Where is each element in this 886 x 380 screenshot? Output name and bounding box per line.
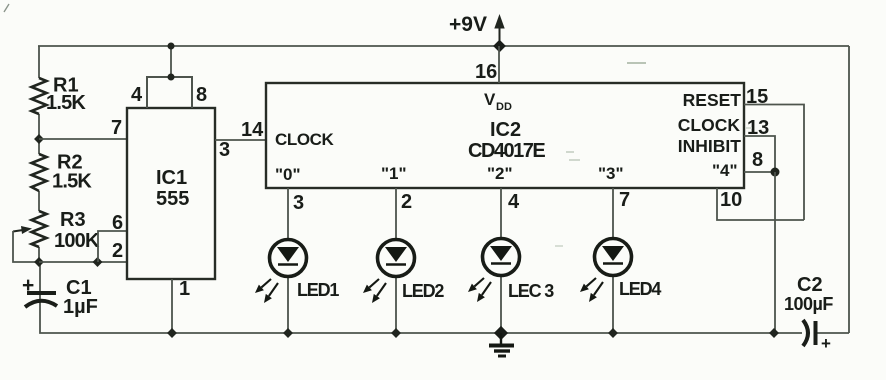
svg-text:+: + xyxy=(821,334,831,353)
svg-text:7: 7 xyxy=(111,117,122,139)
node pin8/13 junction xyxy=(771,168,780,177)
node bracket junction xyxy=(168,74,175,81)
wire pins 4-8 bracket xyxy=(147,77,192,108)
svg-text:CLOCK: CLOCK xyxy=(678,115,741,135)
resistor R2 xyxy=(32,152,93,193)
svg-text:2: 2 xyxy=(112,240,123,262)
svg-text:1.5K: 1.5K xyxy=(46,92,86,114)
wire pin 13 xyxy=(744,136,775,172)
svg-text:"3": "3" xyxy=(598,164,624,183)
svg-text:8: 8 xyxy=(196,84,207,106)
svg-text:V: V xyxy=(484,90,496,109)
ground xyxy=(489,326,514,356)
LED4 xyxy=(580,188,661,338)
svg-text:4: 4 xyxy=(131,84,143,106)
wire pin3 to pin14 xyxy=(215,139,266,141)
node R3/C1/pin2 junction xyxy=(34,257,44,267)
op IC1 555 box xyxy=(127,108,215,279)
wire pin 15 reset loop xyxy=(744,105,804,221)
svg-text:IC1: IC1 xyxy=(156,167,187,189)
svg-text:555: 555 xyxy=(156,188,189,210)
capacitor C2 xyxy=(784,274,833,353)
svg-text:2: 2 xyxy=(401,191,412,213)
svg-text:"1": "1" xyxy=(381,164,407,183)
wire pin 2 xyxy=(39,261,127,263)
svg-text:3: 3 xyxy=(219,139,230,161)
node pin2 junction xyxy=(93,257,103,267)
svg-text:+9V: +9V xyxy=(449,13,487,36)
supply +9V xyxy=(449,13,505,44)
wire pin1 xyxy=(171,279,173,333)
svg-text:100K: 100K xyxy=(54,230,100,252)
svg-text:LED2: LED2 xyxy=(402,281,444,301)
svg-text:3: 3 xyxy=(293,192,304,214)
svg-text:CD4017E: CD4017E xyxy=(468,140,545,162)
svg-text:"2": "2" xyxy=(487,164,513,183)
svg-text:100µF: 100µF xyxy=(784,294,833,314)
svg-text:C2: C2 xyxy=(797,274,823,296)
svg-text:1: 1 xyxy=(179,278,190,300)
svg-text:6: 6 xyxy=(112,212,123,234)
node bottom rail/C2 junction xyxy=(769,328,779,338)
node pin1/ground rail xyxy=(167,328,177,338)
node +9V diamond junction xyxy=(493,40,506,53)
svg-text:LEC 3: LEC 3 xyxy=(508,281,554,301)
LED1 xyxy=(255,188,339,338)
svg-text:INHIBIT: INHIBIT xyxy=(678,136,742,156)
svg-text:DD: DD xyxy=(496,101,512,113)
node pin7 junction xyxy=(34,134,44,144)
scan noise xyxy=(627,62,646,64)
svg-text:1.5K: 1.5K xyxy=(52,171,92,193)
svg-text:"0": "0" xyxy=(275,165,301,184)
svg-text:LED1: LED1 xyxy=(297,280,339,300)
wire pin 10 xyxy=(717,188,804,220)
LED3 xyxy=(468,188,554,333)
LED2 xyxy=(363,188,444,338)
svg-text:10: 10 xyxy=(720,189,742,211)
svg-text:14: 14 xyxy=(241,119,264,141)
svg-text:15: 15 xyxy=(746,86,768,108)
wire left rail xyxy=(38,46,40,263)
capacitor C1 xyxy=(22,274,98,318)
wire pin 6 xyxy=(98,231,127,262)
svg-text:4: 4 xyxy=(508,191,520,213)
svg-text:R3: R3 xyxy=(60,209,86,231)
svg-text:7: 7 xyxy=(619,189,630,211)
wire to bottom rail xyxy=(774,172,776,333)
wire top supply rail xyxy=(38,45,849,47)
svg-text:"4": "4" xyxy=(712,161,738,180)
wire right rail xyxy=(848,46,850,333)
svg-text:1µF: 1µF xyxy=(63,296,98,318)
svg-text:LED4: LED4 xyxy=(619,279,661,299)
svg-text:16: 16 xyxy=(475,61,497,83)
resistor R1 xyxy=(32,75,87,115)
wire pin16 Vdd xyxy=(498,46,500,83)
IC2 CD4017 box xyxy=(266,83,744,188)
wire pin 8 xyxy=(744,171,775,173)
svg-text:RESET: RESET xyxy=(683,90,742,110)
svg-text:IC2: IC2 xyxy=(490,119,521,141)
potentiometer R3 xyxy=(13,209,100,262)
svg-text:CLOCK: CLOCK xyxy=(275,130,335,149)
svg-text:8: 8 xyxy=(752,149,763,171)
scan artifact top-left xyxy=(4,4,9,12)
node top rail junction xyxy=(168,43,175,50)
wire pin 7 xyxy=(39,138,127,140)
wire bottom ground rail xyxy=(40,263,849,333)
